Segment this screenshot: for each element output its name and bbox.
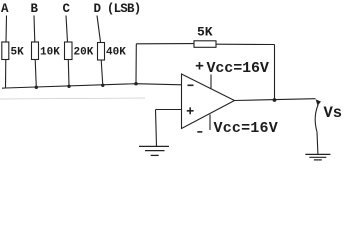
wire +Vcc [210, 75, 212, 89]
wire Vs to ground [316, 132, 319, 154]
junction feedback tap [134, 82, 137, 85]
resistor 5K (input A) [2, 42, 9, 60]
junction D [101, 84, 104, 87]
wire B resistor to bus [35, 60, 36, 88]
wire feedback tap up [135, 44, 137, 84]
wire output [235, 99, 316, 101]
svg-text:Vs: Vs [324, 104, 343, 122]
resistor 20K (input C) [65, 42, 73, 60]
svg-text:5K: 5K [11, 47, 25, 59]
wire D resistor to bus [101, 60, 103, 85]
resistor 5K feedback [194, 41, 216, 48]
wire feedback top left [136, 43, 194, 45]
resistor 40K (input D) [98, 43, 105, 61]
op-amp plus pin mark [187, 107, 194, 114]
junction output/feedback [273, 98, 277, 102]
wire plus input to ground [156, 110, 157, 147]
summing bus wire [2, 84, 182, 89]
wire input A [5, 16, 8, 43]
svg-text:Vcc=16V: Vcc=16V [214, 120, 278, 137]
svg-text:Vcc=16V: Vcc=16V [207, 60, 269, 77]
ground (output) [305, 154, 330, 160]
svg-text:20K: 20K [74, 47, 94, 59]
wire plus input [156, 109, 182, 111]
wire -Vcc [209, 115, 211, 131]
svg-text:40K: 40K [106, 47, 126, 59]
svg-text:5K: 5K [197, 25, 213, 40]
svg-text:+: + [195, 59, 204, 76]
resistor 10K (input B) [32, 42, 39, 60]
wire C resistor to bus [67, 60, 70, 87]
-Vcc minus sign [197, 131, 202, 133]
wire input D [97, 16, 101, 43]
ground (non-inverting input) [139, 146, 169, 155]
svg-text:10K: 10K [40, 47, 60, 59]
junction C [67, 85, 70, 88]
svg-text:A: A [1, 2, 9, 16]
wire feedback top right [216, 43, 275, 45]
wire input C [66, 16, 68, 43]
svg-text:D (LSB): D (LSB) [94, 2, 141, 16]
op-amp U1 [182, 74, 235, 129]
junction B [35, 86, 38, 89]
wire A resistor to bus [5, 60, 7, 89]
Vs measurement curve [315, 105, 318, 132]
output arrowhead [316, 99, 321, 105]
svg-text:C: C [63, 2, 71, 16]
op-amp minus pin mark [188, 84, 194, 86]
wire feedback down to output [274, 45, 276, 101]
svg-text:B: B [31, 2, 39, 16]
wire input B [33, 16, 36, 43]
